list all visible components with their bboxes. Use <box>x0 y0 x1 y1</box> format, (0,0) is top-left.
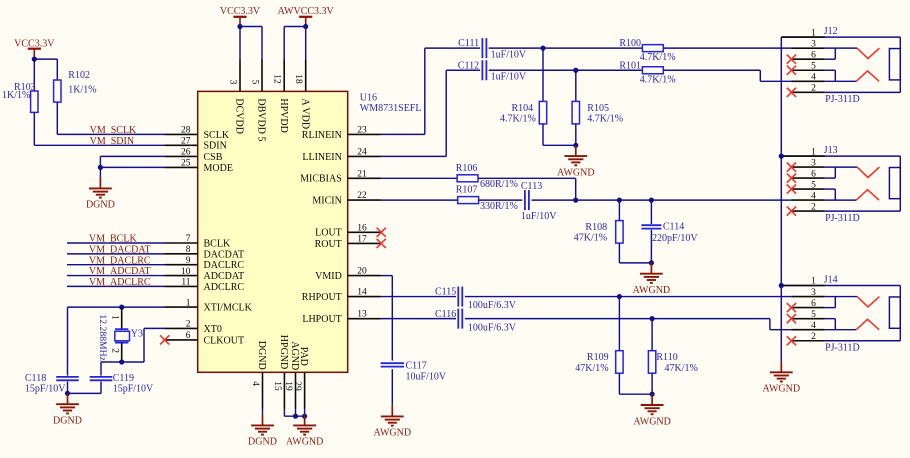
svg-text:100uF/6.3V: 100uF/6.3V <box>468 300 517 311</box>
resistor R102 1K/1% <box>54 70 97 102</box>
junction MODE-DGND <box>98 165 103 170</box>
svg-text:SCLK: SCLK <box>204 130 230 141</box>
svg-text:12.288MHz: 12.288MHz <box>97 314 108 361</box>
svg-text:6: 6 <box>186 331 191 341</box>
junction C114 tap <box>649 198 654 203</box>
svg-text:18: 18 <box>293 74 303 84</box>
wire RHPOUT to C115 <box>381 296 456 298</box>
pin 11 ADCLRC <box>165 278 245 293</box>
svg-text:PJ-311D: PJ-311D <box>825 213 860 224</box>
pin 1 XTI/MCLK <box>165 298 253 313</box>
svg-text:1: 1 <box>186 298 191 308</box>
svg-text:330R/1%: 330R/1% <box>480 201 518 212</box>
wire C115 to J14 pin3 <box>465 296 792 298</box>
svg-text:J13: J13 <box>824 145 838 156</box>
svg-text:DGND: DGND <box>256 341 267 370</box>
wire LHPOUT to C116 <box>381 318 456 320</box>
svg-text:VM_ADCLRC: VM_ADCLRC <box>89 277 151 288</box>
svg-text:20: 20 <box>357 267 367 277</box>
svg-text:DBVDD 5: DBVDD 5 <box>256 98 267 141</box>
wire VM_DACDAT <box>67 253 165 255</box>
wire R100 to J12 pin3 <box>663 47 791 49</box>
svg-text:R101: R101 <box>619 60 641 71</box>
svg-text:4.7K/1%: 4.7K/1% <box>500 113 536 124</box>
svg-text:1: 1 <box>811 28 816 38</box>
svg-text:5: 5 <box>811 61 816 71</box>
pin 13 LHPOUT <box>302 310 381 325</box>
svg-text:C114: C114 <box>663 222 684 233</box>
net label VM_ADCDAT <box>89 266 151 277</box>
svg-text:CSB: CSB <box>204 152 223 163</box>
pin 20 VMID <box>315 267 381 282</box>
svg-text:R105: R105 <box>587 103 609 114</box>
pin 16 LOUT <box>315 223 381 238</box>
wire crystal pin2 to XT0 <box>122 328 165 362</box>
resistor R107 330R/1% <box>456 185 518 212</box>
pin 27 SDIN <box>165 137 227 152</box>
wire VM_ADCDAT <box>67 275 165 277</box>
junction crystal bottom <box>119 359 124 364</box>
pin 10 ADCDAT <box>165 267 244 282</box>
svg-text:15pF/10V: 15pF/10V <box>25 383 66 394</box>
wire LLINEIN to C112 <box>381 70 480 156</box>
resistor R110 47K/1% <box>648 319 697 395</box>
pin 22 MICIN <box>312 191 381 206</box>
svg-text:BCLK: BCLK <box>204 238 231 249</box>
wire R104/R105 commons <box>543 144 576 146</box>
pin 23 RLINEIN <box>302 125 381 140</box>
pin 15 HPGND <box>272 335 289 409</box>
svg-text:WM8731SEFL: WM8731SEFL <box>360 103 422 114</box>
svg-text:HPGND: HPGND <box>278 335 289 369</box>
svg-text:LLINEIN: LLINEIN <box>302 152 341 163</box>
wire AWVCC3.3V to pins 12 and 18 <box>284 27 306 60</box>
svg-text:3: 3 <box>811 288 816 298</box>
svg-text:VM_BCLK: VM_BCLK <box>89 234 138 245</box>
svg-text:C117: C117 <box>406 361 427 372</box>
svg-text:4.7K/1%: 4.7K/1% <box>640 74 676 85</box>
svg-text:47K/1%: 47K/1% <box>665 363 698 374</box>
svg-text:28: 28 <box>181 126 191 136</box>
svg-text:21: 21 <box>357 169 367 179</box>
junction at pin18 riser <box>303 24 308 29</box>
wire VM_ADCLRC <box>67 285 165 287</box>
svg-text:2: 2 <box>186 320 191 330</box>
svg-text:C116: C116 <box>435 309 456 320</box>
resistor R101 4.7K/1% <box>619 60 675 85</box>
pin 3 DCVDD <box>227 59 244 134</box>
junction bias ground <box>573 143 578 148</box>
svg-text:ADCLRC: ADCLRC <box>204 282 245 293</box>
svg-text:DGND: DGND <box>53 416 82 427</box>
ground DGND (pin 4) <box>248 415 277 448</box>
resistor R106 680R/1% <box>456 163 518 190</box>
svg-text:1K/1%: 1K/1% <box>2 90 30 101</box>
svg-text:4.7K/1%: 4.7K/1% <box>587 113 623 124</box>
pin 26 CSB <box>165 148 223 163</box>
svg-text:6: 6 <box>811 50 816 60</box>
svg-text:DACLRC: DACLRC <box>204 260 245 271</box>
wire VCC3.3V to R102/R103 <box>34 59 57 91</box>
junction at pin3 riser <box>237 24 242 29</box>
svg-text:1uF/10V: 1uF/10V <box>491 72 527 83</box>
ground AWGND (jack bus) <box>763 362 801 395</box>
svg-text:5: 5 <box>811 180 816 190</box>
svg-text:19: 19 <box>283 381 293 391</box>
svg-text:VM_DACLRC: VM_DACLRC <box>89 255 151 266</box>
svg-text:13: 13 <box>357 310 367 320</box>
junction crystal top <box>119 305 124 310</box>
svg-text:7: 7 <box>186 234 191 244</box>
connector J12 PJ-311D <box>781 26 900 105</box>
wire VM_DACLRC <box>67 264 165 266</box>
net label VM_SCLK <box>90 125 137 136</box>
svg-text:MODE: MODE <box>204 163 233 174</box>
svg-text:680R/1%: 680R/1% <box>480 179 518 190</box>
resistor R100 4.7K/1% <box>619 38 675 63</box>
junction R110 tap <box>650 316 655 321</box>
resistor R103 1K/1% <box>2 82 38 112</box>
svg-text:27: 27 <box>181 137 191 147</box>
svg-text:17: 17 <box>357 234 367 244</box>
svg-text:25: 25 <box>181 159 191 169</box>
wire HPGND/AGND/PAD commons <box>284 409 304 417</box>
svg-text:AWGND: AWGND <box>286 437 324 448</box>
svg-text:3: 3 <box>811 39 816 49</box>
wire pin4 to DGND <box>262 409 264 415</box>
svg-text:LHPOUT: LHPOUT <box>302 314 341 325</box>
capacitor C119 15pF/10V <box>90 367 154 395</box>
svg-text:ROUT: ROUT <box>315 239 342 250</box>
resistor R104 4.7K/1% <box>500 48 547 145</box>
ground AWGND (R108/C114) <box>633 263 671 296</box>
wire R101 to J12 pin4 <box>663 70 791 81</box>
ground DGND (MODE) <box>86 178 115 211</box>
svg-text:PJ-311D: PJ-311D <box>825 343 860 354</box>
svg-text:J12: J12 <box>824 26 838 37</box>
wire C112 to R101 <box>489 69 643 71</box>
svg-text:12: 12 <box>272 74 282 84</box>
svg-text:DGND: DGND <box>86 200 115 211</box>
junction MICBIAS join <box>573 198 578 203</box>
svg-text:1: 1 <box>811 147 816 157</box>
svg-text:2: 2 <box>811 84 816 94</box>
svg-text:J14: J14 <box>824 274 838 285</box>
svg-text:8: 8 <box>186 245 191 255</box>
junction C118 ground <box>65 391 70 396</box>
no-connect X on LOUT <box>377 228 386 237</box>
svg-text:AWGND: AWGND <box>633 285 671 296</box>
svg-text:DGND: DGND <box>248 437 277 448</box>
no-connect X on CLKOUT <box>160 335 169 344</box>
svg-text:4: 4 <box>811 73 816 83</box>
wire MICBIAS to R106 <box>381 177 457 179</box>
svg-text:29: 29 <box>292 381 302 391</box>
svg-text:AWVCC3.3V: AWVCC3.3V <box>278 6 335 17</box>
svg-text:47K/1%: 47K/1% <box>574 232 607 243</box>
pin 5 DBVDD 5 <box>249 59 266 141</box>
svg-text:VM_ADCDAT: VM_ADCDAT <box>89 266 151 277</box>
wire MICIN to R107 <box>381 199 458 201</box>
junction R105 tap <box>573 68 578 73</box>
capacitor C114 220pF/10V <box>641 200 698 263</box>
svg-text:4: 4 <box>811 191 816 201</box>
svg-text:SDIN: SDIN <box>204 141 227 152</box>
wire R103 to SDIN <box>34 113 165 146</box>
svg-text:5: 5 <box>811 310 816 320</box>
svg-text:16: 16 <box>357 223 367 233</box>
svg-text:R108: R108 <box>585 222 607 233</box>
junction PAD <box>302 414 307 419</box>
svg-text:24: 24 <box>357 147 367 157</box>
svg-text:C115: C115 <box>435 287 456 298</box>
wire R102 to SCLK <box>57 102 165 134</box>
junction R109 tap <box>617 294 622 299</box>
svg-text:AWGND: AWGND <box>633 416 671 427</box>
pin 28 SCLK <box>165 126 230 141</box>
connector J14 PJ-311D <box>781 274 900 353</box>
junction J13 pin1 <box>779 154 784 159</box>
connector J13 PJ-311D <box>781 145 900 224</box>
svg-text:15pF/10V: 15pF/10V <box>113 383 154 394</box>
capacitor C116 100uF/6.3V <box>435 309 517 334</box>
ground AWGND (R109/R110) <box>633 394 671 427</box>
ground AWGND (R104/R105) <box>557 145 595 178</box>
pin 25 MODE <box>165 159 233 174</box>
svg-text:15: 15 <box>272 381 282 391</box>
svg-text:VM_DACDAT: VM_DACDAT <box>89 244 151 255</box>
svg-text:U16: U16 <box>360 92 377 103</box>
svg-text:R109: R109 <box>587 352 609 363</box>
svg-text:22: 22 <box>357 191 367 201</box>
svg-text:XT0: XT0 <box>204 324 222 335</box>
svg-text:MICIN: MICIN <box>312 196 341 207</box>
svg-text:14: 14 <box>357 288 367 298</box>
svg-text:C119: C119 <box>113 373 134 384</box>
svg-text:PAD: PAD <box>298 347 309 366</box>
svg-text:100uF/6.3V: 100uF/6.3V <box>468 322 517 333</box>
pin 4 DGND <box>250 341 267 409</box>
svg-text:VCC3.3V: VCC3.3V <box>220 6 261 17</box>
svg-text:11: 11 <box>181 278 190 288</box>
svg-text:HPVDD: HPVDD <box>278 98 289 132</box>
power flag VCC3.3V (pull-ups) <box>14 38 55 59</box>
svg-text:1: 1 <box>109 315 119 320</box>
wire VCC3.3V to pins 3 and 5 <box>240 27 262 60</box>
svg-text:1uF/10V: 1uF/10V <box>491 50 527 61</box>
net label VM_DACLRC <box>89 255 151 266</box>
svg-text:RLINEIN: RLINEIN <box>302 130 342 141</box>
svg-text:2: 2 <box>811 202 816 212</box>
resistor R109 47K/1% <box>575 297 623 395</box>
svg-text:2: 2 <box>109 348 119 353</box>
svg-text:23: 23 <box>357 125 367 135</box>
svg-text:3: 3 <box>811 158 816 168</box>
junction J14 pin1 <box>779 283 784 288</box>
svg-text:R104: R104 <box>512 103 534 114</box>
capacitor C112 1uF/10V <box>458 60 527 82</box>
pin 29 PAD <box>292 347 309 409</box>
svg-text:RHPOUT: RHPOUT <box>302 292 342 303</box>
ground AWGND (pins 15/19/29) <box>286 415 324 448</box>
wire RLINEIN to C111 <box>381 48 480 134</box>
resistor R105 4.7K/1% <box>572 70 623 145</box>
net label VM_SDIN <box>90 136 134 147</box>
resistor R108 47K/1% <box>574 200 623 263</box>
svg-text:4: 4 <box>250 381 260 386</box>
wire C111 to R100 <box>489 47 643 49</box>
pin 8 DACDAT <box>165 245 244 260</box>
svg-text:VM_SCLK: VM_SCLK <box>90 125 137 136</box>
svg-text:DCVDD: DCVDD <box>234 98 245 134</box>
svg-text:DACDAT: DACDAT <box>204 249 245 260</box>
wire VMID to C117 <box>381 276 392 361</box>
svg-text:AWGND: AWGND <box>374 428 412 439</box>
svg-text:26: 26 <box>181 148 191 158</box>
pin 18 A VDD <box>293 59 310 129</box>
wire R108/C114 commons <box>619 262 651 264</box>
power flag AWVCC3.3V (HPVDD/AVDD) <box>278 6 335 26</box>
svg-text:220pF/10V: 220pF/10V <box>652 233 698 244</box>
svg-text:AWGND: AWGND <box>763 384 801 395</box>
svg-text:6: 6 <box>811 169 816 179</box>
svg-text:R107: R107 <box>456 185 478 196</box>
svg-text:1K/1%: 1K/1% <box>68 84 96 95</box>
svg-text:VM_SDIN: VM_SDIN <box>90 136 134 147</box>
svg-text:5: 5 <box>249 80 259 85</box>
pin 14 RHPOUT <box>302 288 381 303</box>
crystal Y3 12.288MHz <box>97 307 143 362</box>
junction AGND <box>293 414 298 419</box>
pin 24 LLINEIN <box>302 147 381 162</box>
pin 17 ROUT <box>315 234 381 249</box>
pin 6 CLKOUT <box>165 331 244 346</box>
junction hp ground <box>650 392 655 397</box>
svg-text:47K/1%: 47K/1% <box>575 363 608 374</box>
wire C118/C119 commons <box>68 392 102 394</box>
junction mic filter ground <box>649 260 654 265</box>
net label VM_DACDAT <box>89 244 151 255</box>
svg-text:R110: R110 <box>656 352 677 363</box>
capacitor C111 1uF/10V <box>458 38 527 60</box>
wire R107 to C113 <box>479 199 523 201</box>
svg-text:C118: C118 <box>25 373 46 384</box>
svg-text:C112: C112 <box>458 60 479 71</box>
wire jack ground bus <box>780 37 782 361</box>
capacitor C117 10uF/10V <box>381 361 447 406</box>
svg-text:R100: R100 <box>619 38 641 49</box>
capacitor C113 1uF/10V <box>521 181 557 222</box>
svg-text:ADCDAT: ADCDAT <box>204 271 245 282</box>
net label VM_ADCLRC <box>89 277 151 288</box>
svg-text:VMID: VMID <box>315 271 342 282</box>
capacitor C118 15pF/10V <box>25 367 79 395</box>
pin 12 HPVDD <box>272 59 289 133</box>
power flag VCC3.3V (DCVDD/DBVDD) <box>220 6 261 26</box>
junction VCC to resistors <box>32 57 37 62</box>
svg-text:Y3: Y3 <box>131 329 143 340</box>
wire XTI/MCLK row to C118 <box>68 307 165 367</box>
svg-text:1uF/10V: 1uF/10V <box>521 211 557 222</box>
svg-text:XTI/MCLK: XTI/MCLK <box>204 303 253 314</box>
svg-text:LOUT: LOUT <box>315 228 342 239</box>
svg-text:C113: C113 <box>521 181 542 192</box>
svg-text:3: 3 <box>227 80 237 85</box>
svg-text:4.7K/1%: 4.7K/1% <box>640 52 676 63</box>
svg-text:VCC3.3V: VCC3.3V <box>14 38 55 49</box>
ground DGND (crystal caps) <box>53 393 82 426</box>
pin 19 AGND <box>283 341 300 408</box>
wire R109/R110 commons <box>619 393 652 395</box>
svg-text:6: 6 <box>811 299 816 309</box>
svg-text:R102: R102 <box>68 70 90 81</box>
IC U16 WM8731SEFL codec body <box>198 91 422 372</box>
wire R106 to MICIN node <box>478 178 576 200</box>
svg-text:A VDD: A VDD <box>299 98 310 129</box>
pin 7 BCLK <box>165 234 231 249</box>
junction R104 tap <box>540 46 545 51</box>
svg-text:4: 4 <box>811 321 816 331</box>
svg-text:9: 9 <box>186 256 191 266</box>
capacitor C115 100uF/6.3V <box>435 287 517 312</box>
wire crystal bottom to C119 <box>101 362 122 367</box>
pin 21 MICBIAS <box>300 169 381 184</box>
ground AWGND (C117) <box>374 406 412 439</box>
wire C116 to J14 pin4 <box>465 319 792 330</box>
pin 9 DACLRC <box>165 256 245 271</box>
junction R108 tap <box>617 198 622 203</box>
svg-text:R106: R106 <box>456 163 478 174</box>
no-connect X on ROUT <box>377 239 386 248</box>
wire CSB/MODE strap to ground <box>100 156 164 177</box>
svg-text:PJ-311D: PJ-311D <box>825 94 860 105</box>
wire VM_BCLK <box>67 242 165 244</box>
net label VM_BCLK <box>89 234 138 245</box>
svg-text:10uF/10V: 10uF/10V <box>406 372 447 383</box>
svg-text:AWGND: AWGND <box>557 167 595 178</box>
wire C113 to J13 pin4 <box>532 199 792 201</box>
svg-text:C111: C111 <box>458 38 479 49</box>
svg-text:CLKOUT: CLKOUT <box>204 335 245 346</box>
svg-text:10: 10 <box>181 267 191 277</box>
svg-text:2: 2 <box>811 332 816 342</box>
svg-text:1: 1 <box>811 277 816 287</box>
pin 2 XT0 <box>165 320 222 335</box>
svg-text:MICBIAS: MICBIAS <box>300 174 342 185</box>
